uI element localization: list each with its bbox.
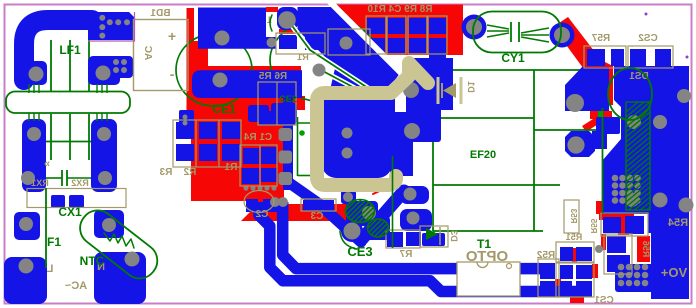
wire top-left bent trace (24, 12, 134, 80)
hatched keepout strip (620, 87, 656, 262)
electrolytic CE3 arc (340, 231, 357, 249)
pads CS2 (630, 49, 671, 66)
pad AC-N bottom (94, 252, 146, 304)
wire to transformer arm (390, 112, 441, 142)
svg-text:VO+: VO+ (660, 265, 687, 280)
pad LF1 pin1 (25, 61, 47, 85)
label OPTO pin notch (477, 262, 488, 268)
pad LF1 pin3 strip (22, 119, 46, 192)
capacitor CY1 symbol (487, 22, 549, 42)
red between R54 pads (618, 214, 629, 235)
fuse F1 line (45, 188, 47, 268)
wire arm down (390, 135, 413, 176)
pad CY1 left (462, 15, 487, 40)
wire under khaki elbow (406, 58, 453, 121)
svg-text:F1: F1 (47, 235, 61, 249)
pad R6 b (259, 111, 276, 125)
optocoupler OPTO outline (457, 262, 520, 296)
resistor R8 R9 C4 R10 outlines (366, 16, 447, 54)
bridge BD1 outline (134, 20, 189, 91)
capacitor CX1 outline (27, 189, 126, 208)
svg-text:CE3: CE3 (347, 244, 372, 259)
pad CE1 positive bar (198, 8, 276, 49)
wire route b (319, 69, 366, 94)
pads R8 R9 C4 R10 (367, 18, 446, 53)
resistor R1 outline (276, 29, 370, 55)
wire CE2 vertical strip (283, 96, 293, 190)
svg-text:R7: R7 (399, 249, 412, 260)
svg-text:RX2: RX2 (71, 178, 89, 188)
purple keepout line (88, 12, 135, 41)
svg-text:R55: R55 (589, 218, 598, 233)
diode DS1 outlines (584, 46, 673, 68)
svg-text:R1: R1 (224, 162, 237, 173)
resistor R6 R5 outline (258, 82, 296, 125)
wire CE3 diagonal b (288, 182, 361, 242)
pad CX1 b (69, 195, 84, 208)
copper pad under via grid2 (615, 264, 655, 292)
pad via small (341, 190, 356, 204)
pad AC-L bottom-left (4, 257, 47, 304)
red diagonal CY1 to DS1 (553, 17, 613, 105)
svg-text:RX1: RX1 (31, 178, 49, 188)
resistor R56 outline2 (604, 234, 632, 274)
red bit cluster a (572, 248, 577, 262)
svg-text:AC~: AC~ (64, 280, 87, 292)
svg-text:D3: D3 (449, 230, 459, 242)
red strip under R54 row (599, 212, 634, 220)
via thermal hatch b (358, 218, 398, 238)
red trace near khaki end (373, 186, 390, 194)
gray slot pads (279, 128, 293, 185)
svg-text:EF20: EF20 (470, 149, 496, 161)
pads C2 (246, 199, 277, 212)
purple dot a (645, 13, 648, 16)
copper under hatch vias (346, 201, 390, 240)
red bit output q1 (601, 234, 606, 250)
capacitor C2 outline (244, 191, 274, 213)
wire CE3 diagonal a (362, 191, 404, 239)
resistor R7 outline (386, 230, 420, 248)
red bit cluster b (592, 264, 598, 278)
inductor LF1 pin ticks (29, 84, 107, 121)
svg-text:R57: R57 (591, 33, 610, 44)
copper pour center blob (322, 97, 392, 178)
red block R8 R9 C4 R10 (332, 5, 463, 56)
svg-text:NTC: NTC (80, 254, 105, 268)
wire route a (287, 19, 368, 88)
capacitor C1 R4 outline (240, 145, 277, 186)
resistor R52 outline (538, 259, 559, 297)
svg-text:CX1: CX1 (58, 205, 82, 219)
resistor R51 outlines (556, 242, 594, 297)
red sliver under pin1 pad (279, 29, 297, 34)
clearance channel c2 (328, 0, 406, 78)
red bit bottom left of cluster (570, 295, 584, 303)
pad CE1 negative bar (192, 70, 302, 98)
svg-text:-: - (169, 66, 174, 82)
svg-text:CS1: CS1 (594, 295, 614, 306)
pads R3 R2 R1 (176, 122, 240, 161)
pad R1 b (305, 36, 321, 50)
capacitor CX1 symbol (46, 170, 91, 186)
green marker dot (299, 130, 305, 136)
khaki power snake (317, 63, 428, 185)
thermistor NTC zigzag (104, 233, 134, 248)
svg-text:«: « (44, 158, 50, 170)
copper pour blob wedge (322, 64, 393, 140)
svg-text:CY1: CY1 (501, 51, 525, 65)
wire output trace upper (283, 202, 540, 269)
capacitor C3 outline (301, 199, 336, 211)
svg-text:BD1: BD1 (150, 8, 170, 19)
pad R7 b (406, 232, 421, 246)
green vertical line right (602, 108, 604, 213)
svg-text:R56: R56 (641, 241, 651, 258)
svg-text:T1: T1 (477, 237, 491, 251)
diode D1 outline (438, 77, 461, 104)
pad CX1 a (51, 195, 65, 208)
via thermal hatch a (333, 199, 387, 223)
pad LF1 pin2 (88, 56, 120, 85)
wire output trace lower (259, 202, 592, 292)
svg-text:LF1: LF1 (59, 43, 81, 57)
capacitor CY1 outline (473, 12, 561, 53)
resistor R54 outline (601, 213, 648, 236)
svg-text:R1: R1 (297, 52, 309, 62)
purple dot b (686, 56, 689, 59)
svg-text:C1 R4: C1 R4 (243, 132, 272, 143)
svg-text:L: L (46, 263, 53, 275)
svg-text:R53: R53 (569, 208, 578, 223)
wire route b clearance (319, 69, 366, 94)
green dot right (598, 111, 603, 117)
pad R1 a (279, 35, 297, 49)
pad R6 a (259, 83, 276, 97)
pad CE3 plus (341, 220, 363, 242)
label pin1 arc (270, 15, 272, 31)
label OPTO pin circle (507, 264, 512, 269)
red bit R52 right (555, 279, 561, 295)
red bits right mid (590, 111, 612, 119)
svg-text:R8 R9 C4 R10: R8 R9 C4 R10 (367, 4, 432, 15)
diode D3 triangle (426, 228, 438, 240)
resistor network R3R2R1 outline (173, 120, 241, 167)
red region R56 (637, 236, 650, 262)
wire stem connector (429, 50, 446, 62)
svg-text:C2: C2 (255, 209, 268, 220)
pad D2 a (400, 186, 429, 204)
pad F1 right (94, 210, 124, 238)
red bit C2 center (258, 200, 263, 213)
wire route a clearance (287, 19, 368, 88)
red sliver top near pin1 pad (266, 7, 278, 12)
electrolytic CE4 outline (608, 68, 652, 120)
svg-text:R2: R2 (183, 167, 196, 178)
svg-text:CE1: CE1 (212, 102, 236, 116)
copper pour center mass (298, 7, 401, 122)
pad F1 left (14, 212, 40, 240)
red diag below arm a (584, 120, 598, 129)
pads C1 R4 (242, 147, 277, 184)
diode D3 outline (420, 226, 448, 247)
svg-text:C3: C3 (310, 211, 323, 222)
via dots (99, 15, 648, 287)
svg-text:CE2: CE2 (279, 94, 297, 104)
pad right arm a (565, 67, 609, 111)
svg-text:R54: R54 (667, 217, 688, 229)
pad R5 a (278, 83, 296, 97)
resistor R7 green line (392, 156, 394, 248)
pad D3 anode (422, 233, 445, 246)
svg-text:R3: R3 (159, 167, 172, 178)
svg-text:R52: R52 (536, 250, 555, 261)
pads R57 (587, 49, 624, 66)
pad D2 b (400, 209, 432, 231)
pad BD1 pin dots (110, 56, 133, 78)
svg-text:CS2: CS2 (638, 33, 658, 44)
svg-text:AC: AC (142, 46, 153, 60)
pad right arm b (565, 131, 607, 157)
pad pin1 round (277, 7, 298, 30)
red pad area above R54 (596, 201, 609, 214)
inductor LF1 body (6, 92, 130, 114)
svg-text:D1: D1 (466, 81, 476, 93)
pad small with vias (179, 110, 194, 126)
pad R5 b (278, 111, 296, 125)
svg-text:R6 R5: R6 R5 (258, 71, 287, 82)
copper pour right piece B (596, 117, 620, 134)
pads C3 (303, 200, 334, 211)
pads CE2 (248, 103, 297, 124)
pad CY1 right (550, 23, 575, 48)
pads output resistors R51 R52 CS1 R54 (540, 216, 644, 295)
thermistor NTC outline (73, 204, 164, 286)
svg-text:+: + (168, 28, 176, 44)
pad R7 a (387, 232, 403, 247)
pad LF1 pin4 strip (91, 119, 117, 192)
green under-copper routes (23, 18, 597, 231)
copper pour right (602, 66, 689, 299)
red trace right of BD1 / central red pour (187, 8, 347, 221)
resistor R53 outline (564, 200, 579, 233)
